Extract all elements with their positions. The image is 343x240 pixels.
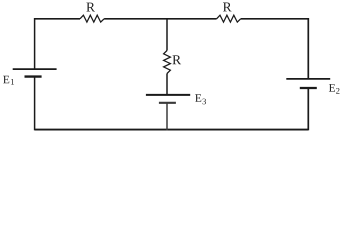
wire: top rail middle segment [104,18,217,20]
battery E1 [3,69,56,85]
wire: middle branch lower [166,103,168,131]
wire: middle branch upper [166,19,168,51]
wire: top rail right segment [241,18,309,20]
battery E2 [286,79,339,94]
wire: top rail left segment [35,18,80,20]
wire: left branch lower [34,77,36,131]
wire: bottom rail [35,129,309,131]
battery E3 [146,94,206,104]
wire: right branch upper [307,18,309,79]
resistor R3 (middle vertical) [164,51,181,74]
resistor R1 (top left) [80,3,104,22]
resistor R2 (top right) [217,3,241,23]
wire: middle branch between resistor and battery [166,74,168,95]
wire: right branch lower [307,88,309,130]
wire: left branch upper [34,18,36,69]
